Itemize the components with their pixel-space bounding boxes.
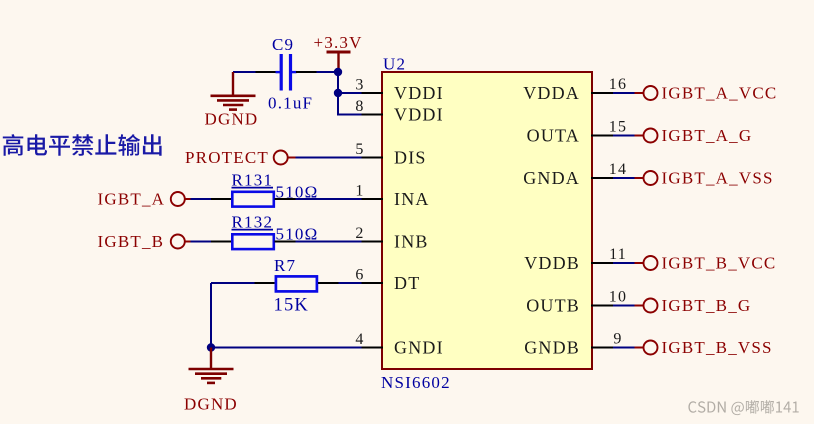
svg-text:IGBT_B: IGBT_B — [98, 232, 165, 251]
pin 11 (VDDB) stub — [591, 262, 613, 264]
svg-text:VDDA: VDDA — [523, 83, 580, 103]
svg-text:2: 2 — [355, 225, 364, 242]
pin name VDDI — [394, 83, 444, 103]
designator C9 — [272, 35, 294, 54]
resistor R131 — [232, 192, 273, 207]
svg-text:1: 1 — [355, 183, 364, 200]
wire R7 to DT — [339, 282, 362, 284]
svg-text:4: 4 — [355, 331, 364, 348]
port IGBT_A_VCC circle — [635, 86, 658, 100]
svg-text:OUTA: OUTA — [527, 125, 580, 145]
value label NSI6602 — [381, 373, 451, 392]
pin 10 (OUTB) stub — [591, 305, 613, 307]
pin name OUTA — [527, 125, 580, 145]
svg-text:INA: INA — [394, 189, 430, 209]
svg-text:IGBT_B_G: IGBT_B_G — [662, 296, 752, 315]
wire IGBT_B_VSS — [613, 347, 635, 349]
pin 8 (VDDI) stub — [362, 114, 384, 116]
capacitor C9 left pin — [256, 71, 277, 73]
port IGBT_B circle — [171, 235, 191, 249]
port IGBT_A_G circle — [635, 129, 658, 143]
net label DGND (bottom) — [184, 395, 238, 414]
svg-text:DT: DT — [394, 273, 420, 293]
svg-text:GNDB: GNDB — [524, 337, 580, 357]
svg-text:R7: R7 — [274, 256, 296, 275]
wire junction down to VDDI pins — [337, 71, 339, 115]
net label DGND (top) — [205, 110, 259, 129]
wire GNDI net — [211, 347, 362, 349]
svg-text:R131: R131 — [232, 171, 274, 190]
pin number 8 — [355, 98, 364, 115]
svg-text:8: 8 — [355, 98, 364, 115]
capacitor C9 right pin — [296, 71, 317, 73]
pin name VDDI — [394, 104, 444, 124]
pin number 4 — [355, 331, 364, 348]
wire IGBT_A_G — [613, 135, 635, 137]
ground DGND (top) — [211, 72, 256, 110]
net label IGBT_B — [98, 232, 165, 251]
pin number 9 — [613, 330, 622, 347]
watermark CSDN @嘟嘟141 — [688, 400, 798, 415]
svg-text:VDDB: VDDB — [524, 253, 580, 273]
port IGBT_B_G circle — [635, 299, 658, 313]
port IGBT_B_VCC circle — [635, 256, 658, 270]
resistor R7 — [276, 276, 317, 291]
wire IGBT_B to R132 — [191, 241, 212, 243]
svg-text:R132: R132 — [232, 213, 274, 232]
pin name GNDA — [523, 168, 580, 188]
net label PROTECT — [185, 148, 269, 167]
pin 15 (OUTA) stub — [591, 135, 613, 137]
port IGBT_A circle — [171, 192, 191, 206]
svg-text:OUTB: OUTB — [526, 295, 580, 315]
junction at +3.3V rail — [334, 68, 342, 76]
net label IGBT_B_VCC — [662, 254, 777, 273]
svg-text:IGBT_B_VSS: IGBT_B_VSS — [662, 338, 773, 357]
svg-text:INB: INB — [394, 231, 429, 251]
wire vertical R7 to GNDI net — [210, 283, 212, 348]
svg-text:10: 10 — [609, 288, 627, 305]
svg-text:IGBT_A_VCC: IGBT_A_VCC — [662, 84, 778, 103]
pin name GNDB — [524, 337, 580, 357]
net label IGBT_A_G — [662, 126, 753, 145]
svg-text:U2: U2 — [383, 55, 406, 74]
svg-text:IGBT_A_G: IGBT_A_G — [662, 126, 753, 145]
resistor R132 right pin — [275, 241, 296, 243]
svg-text:16: 16 — [609, 76, 627, 93]
svg-text:510Ω: 510Ω — [276, 224, 319, 243]
wire R132 to INB — [296, 241, 362, 243]
svg-text:VDDI: VDDI — [394, 83, 444, 103]
resistor R7 left pin — [255, 282, 275, 284]
blue Chinese note 高电平禁止输出 — [3, 134, 162, 156]
pin 1 (INA) stub — [362, 198, 384, 200]
pin 2 (INB) stub — [362, 241, 384, 243]
pin 3 (VDDI) stub — [362, 92, 384, 94]
wire to pin 3 — [338, 92, 362, 94]
resistor R132 left pin — [211, 241, 231, 243]
svg-text:VDDI: VDDI — [394, 104, 444, 124]
designator R131 — [232, 171, 274, 190]
pin number 3 — [355, 77, 364, 94]
wire DGND riser to R7 — [211, 282, 255, 284]
wire IGBT_B_VCC — [613, 262, 635, 264]
svg-text:14: 14 — [609, 161, 627, 178]
net label IGBT_A_VCC — [662, 84, 778, 103]
svg-text:C9: C9 — [272, 35, 294, 54]
svg-text:3: 3 — [355, 77, 364, 94]
designator R132 — [232, 213, 274, 232]
pin 14 (GNDA) stub — [591, 177, 613, 179]
op-amp / gate-driver IC U2 body — [382, 72, 592, 369]
capacitor C9 — [276, 54, 297, 91]
pin number 15 — [609, 118, 627, 135]
svg-text:15K: 15K — [274, 296, 309, 316]
pin 9 (GNDB) stub — [591, 347, 613, 349]
value label 0.1uF — [268, 94, 313, 113]
resistor R131 right pin — [275, 198, 296, 200]
pin number 5 — [355, 141, 364, 158]
port PROTECT circle — [274, 151, 296, 165]
svg-text:+3.3V: +3.3V — [314, 33, 363, 52]
svg-text:GNDI: GNDI — [394, 337, 444, 357]
net label IGBT_A — [98, 190, 166, 209]
net label IGBT_A_VSS — [662, 169, 774, 188]
svg-text:IGBT_A: IGBT_A — [98, 190, 166, 209]
svg-text:IGBT_A_VSS: IGBT_A_VSS — [662, 169, 774, 188]
pin 5 (DIS) stub — [362, 157, 384, 159]
port IGBT_A_VSS circle — [635, 171, 658, 185]
pin number 11 — [609, 246, 627, 263]
designator U2 — [383, 55, 406, 74]
pin number 1 — [355, 183, 364, 200]
pin number 16 — [609, 76, 627, 93]
wire to pin 8 — [337, 114, 362, 116]
pin name DT — [394, 273, 420, 293]
net label IGBT_B_G — [662, 296, 752, 315]
value label 510&#937; (R131) — [276, 182, 319, 201]
pin 16 (VDDA) stub — [591, 92, 613, 94]
wire IGBT_A_VCC — [613, 92, 635, 94]
power symbol +3.3V — [327, 52, 351, 72]
svg-text:11: 11 — [609, 246, 627, 263]
svg-text:GNDA: GNDA — [523, 168, 580, 188]
wire DGND to C9 (net +3V3 rail, y=72) — [233, 71, 256, 73]
pin name OUTB — [526, 295, 580, 315]
svg-text:DIS: DIS — [394, 147, 427, 167]
net label IGBT_B_VSS — [662, 338, 773, 357]
pin name VDDB — [524, 253, 580, 273]
svg-text:DGND: DGND — [205, 110, 259, 129]
svg-text:0.1uF: 0.1uF — [268, 94, 313, 113]
pin number 10 — [609, 288, 627, 305]
pin number 6 — [355, 267, 364, 284]
svg-text:PROTECT: PROTECT — [185, 148, 269, 167]
svg-text:9: 9 — [613, 330, 622, 347]
wire PROTECT to DIS — [296, 157, 362, 159]
value label 15K — [274, 296, 309, 316]
pin name DIS — [394, 147, 427, 167]
pin number 14 — [609, 161, 627, 178]
wire C9 to +3.3V junction — [317, 71, 339, 73]
wire R131 to INA — [296, 198, 362, 200]
designator R7 — [274, 256, 296, 275]
junction at pin 3 tap — [334, 89, 342, 97]
ground DGND (bottom) — [189, 348, 234, 383]
net label +3.3V — [314, 33, 363, 52]
pin name INB — [394, 231, 429, 251]
wire IGBT_B_G — [613, 305, 635, 307]
value label 510&#937; (R132) — [276, 224, 319, 243]
port IGBT_B_VSS circle — [635, 341, 658, 355]
svg-text:15: 15 — [609, 118, 627, 135]
svg-text:6: 6 — [355, 267, 364, 284]
wire IGBT_A to R131 — [191, 198, 212, 200]
pin name VDDA — [523, 83, 580, 103]
pin name INA — [394, 189, 430, 209]
resistor R132 — [232, 234, 273, 249]
resistor R7 right pin — [318, 282, 339, 284]
wire IGBT_A_VSS — [613, 177, 635, 179]
pin 6 (DT) stub — [362, 282, 384, 284]
svg-text:NSI6602: NSI6602 — [381, 373, 451, 392]
resistor R131 left pin — [211, 198, 231, 200]
pin number 2 — [355, 225, 364, 242]
svg-text:IGBT_B_VCC: IGBT_B_VCC — [662, 254, 777, 273]
pin 4 (GNDI) stub — [362, 347, 384, 349]
pin name GNDI — [394, 337, 444, 357]
svg-text:5: 5 — [355, 141, 364, 158]
junction at GNDI / DGND — [207, 343, 215, 351]
svg-text:DGND: DGND — [184, 395, 238, 414]
